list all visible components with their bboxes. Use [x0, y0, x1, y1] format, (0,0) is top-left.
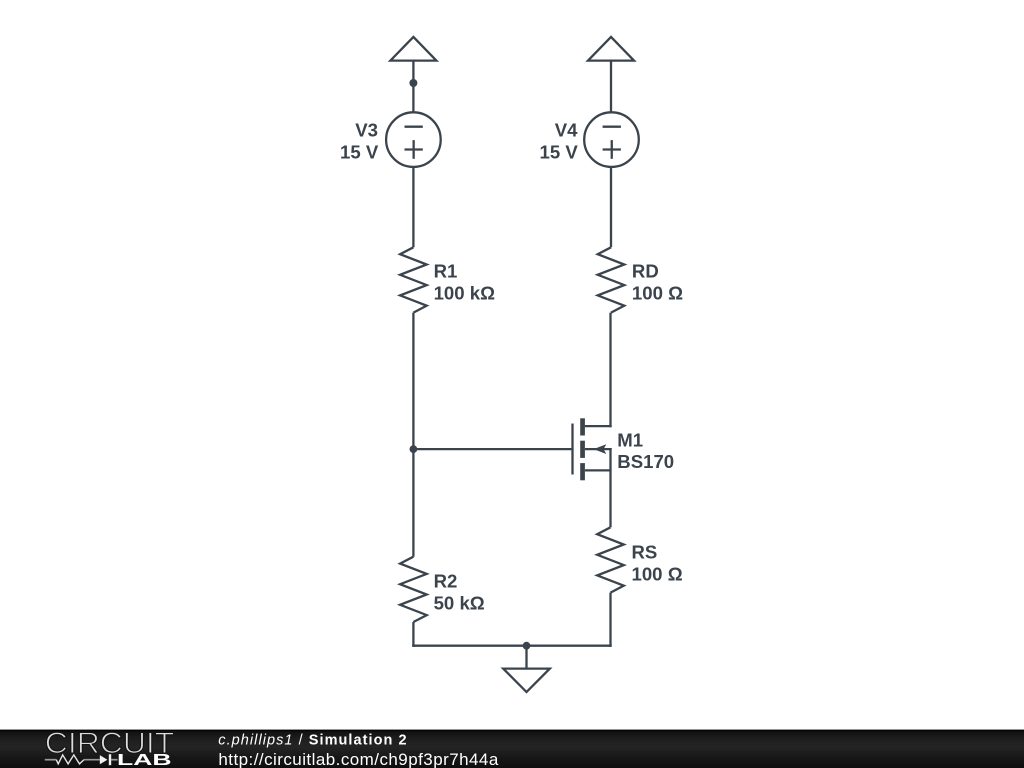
ground [503, 646, 550, 692]
resistor R1 [400, 247, 427, 312]
svg-text:V4: V4 [555, 120, 578, 141]
resistor R2 [400, 557, 427, 622]
value label BS170 (M1) [617, 451, 674, 472]
value label 100 kOhm (R1) [434, 282, 496, 303]
footer title text [218, 732, 407, 748]
value label 15 V (V4) [540, 142, 579, 163]
svg-text:15 V: 15 V [540, 142, 579, 163]
voltage source V3 [386, 112, 441, 167]
svg-text:15 V: 15 V [340, 142, 379, 163]
power flag (V3 branch) [390, 37, 436, 113]
designator label RD [632, 260, 659, 281]
voltage source V4 [584, 112, 639, 167]
CircuitLab logo wordmark LAB [117, 752, 172, 768]
resistor RD [598, 247, 625, 312]
wire R2 to bottom rail [412, 622, 414, 647]
svg-text:V3: V3 [355, 120, 378, 141]
svg-text:R2: R2 [434, 571, 458, 592]
value label 15 V (V3) [340, 142, 379, 163]
wire node A to gate of M1 [413, 448, 571, 450]
svg-text:http://circuitlab.com/ch9pf3pr: http://circuitlab.com/ch9pf3pr7h44a [218, 750, 498, 768]
footer URL text [218, 750, 498, 768]
wire RS to bottom rail [609, 593, 611, 647]
value label 50 kOhm (R2) [434, 593, 485, 614]
transistor M1 [573, 418, 612, 480]
node A junction dot [410, 445, 418, 453]
designator label R2 [434, 571, 458, 592]
wire V3 to R1 [412, 167, 414, 247]
designator label RS [632, 541, 658, 562]
svg-text:50 kΩ: 50 kΩ [434, 593, 485, 614]
svg-text:BS170: BS170 [617, 451, 674, 472]
power flag (V4 branch) [588, 37, 634, 113]
designator label M1 [617, 429, 643, 450]
wire R1 to node A [412, 313, 414, 450]
value label 100 Ohm (RD) [632, 282, 683, 303]
designator label R1 [434, 260, 458, 281]
junction dot on V3 supply wire [409, 79, 417, 87]
CircuitLab logo squiggle (resistor and diode) [45, 754, 118, 765]
wire M1 source to RS [609, 448, 611, 527]
value label 100 Ohm (RS) [632, 563, 683, 584]
svg-text:M1: M1 [617, 429, 643, 450]
svg-text:100 kΩ: 100 kΩ [434, 282, 496, 303]
svg-text:RS: RS [632, 541, 658, 562]
svg-text:100 Ω: 100 Ω [632, 282, 683, 303]
wire RD to drain of M1 [585, 313, 612, 428]
svg-text:100 Ω: 100 Ω [632, 563, 683, 584]
svg-text:LAB: LAB [117, 752, 172, 768]
footer bar [0, 730, 1024, 768]
designator label V3 [355, 120, 378, 141]
svg-text:c.phillips1 / Simulation 2: c.phillips1 / Simulation 2 [218, 732, 407, 748]
designator label V4 [555, 120, 578, 141]
wire node A to R2 [412, 449, 414, 557]
bottom rail wire [412, 645, 611, 647]
CircuitLab logo wordmark CIRCUIT [45, 727, 175, 760]
resistor RS [597, 527, 624, 592]
svg-text:RD: RD [632, 260, 659, 281]
svg-text:R1: R1 [434, 260, 458, 281]
junction dot on bottom rail [523, 642, 531, 650]
wire V4 to RD [610, 167, 612, 247]
